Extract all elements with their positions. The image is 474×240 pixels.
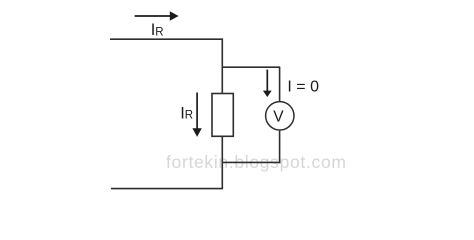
wire junction horizontal to voltmeter branch xyxy=(222,66,280,68)
wire resistor bottom to lower junction xyxy=(221,136,223,162)
wire top horizontal xyxy=(110,38,222,40)
voltmeter V (circle) xyxy=(266,102,294,130)
svg-text:IR: IR xyxy=(151,21,164,39)
wire lower horizontal between branches xyxy=(222,161,280,163)
wire right vertical down to voltmeter top xyxy=(279,67,281,101)
wire bottom horizontal xyxy=(111,188,223,190)
wire left vertical from top corner to resistor top xyxy=(221,38,223,93)
resistor R xyxy=(212,94,233,137)
arrow I=0 branch (down) xyxy=(263,70,272,97)
wire voltmeter bottom down xyxy=(279,131,281,164)
arrow IR through resistor (down) xyxy=(192,93,201,137)
arrow top current direction xyxy=(135,11,179,21)
svg-text:V: V xyxy=(273,109,284,126)
svg-text:IR: IR xyxy=(180,105,193,123)
wire lower vertical xyxy=(221,162,223,188)
svg-text:I = 0: I = 0 xyxy=(287,79,319,96)
